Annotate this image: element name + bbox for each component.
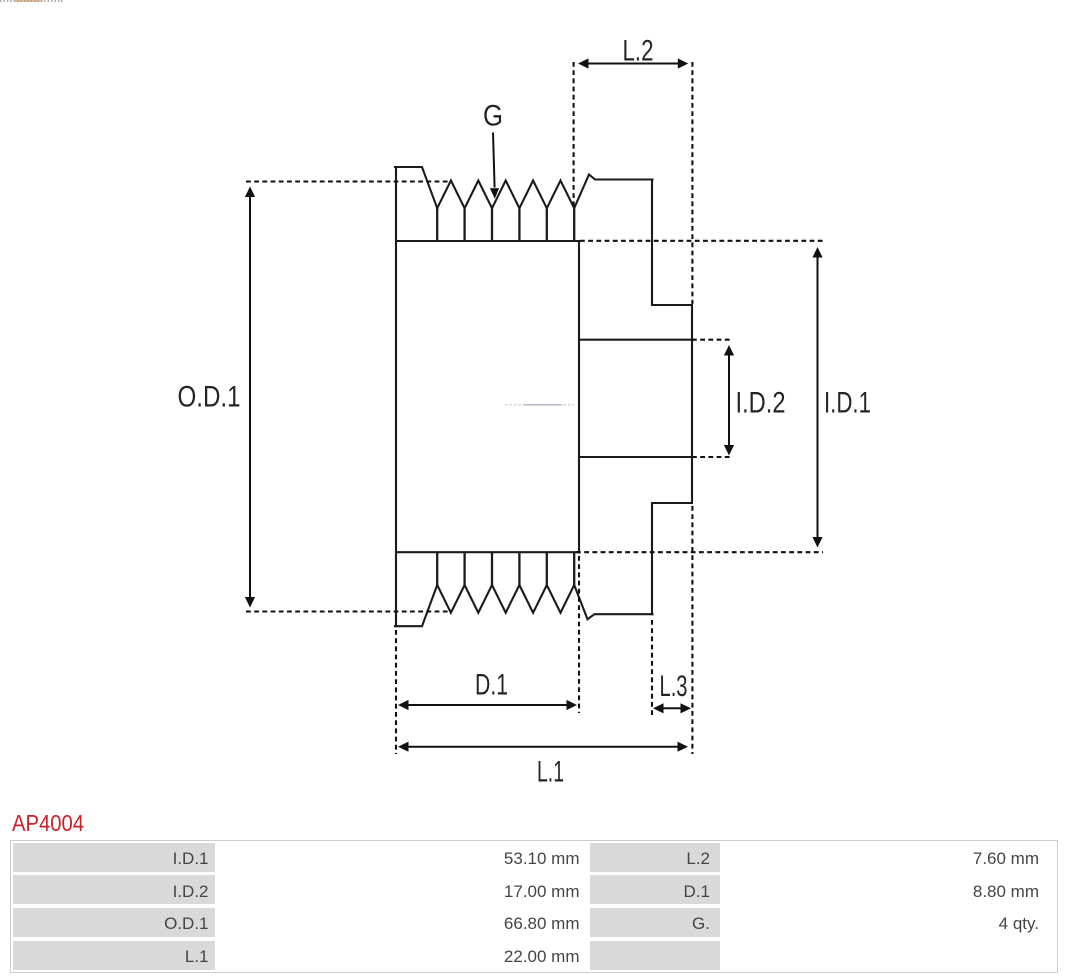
svg-text:L.1: L.1	[537, 756, 564, 789]
svg-text:I.D.1: I.D.1	[824, 387, 871, 420]
svg-text:L.3: L.3	[660, 670, 688, 703]
svg-text:L.2: L.2	[623, 35, 654, 68]
svg-text:G: G	[483, 100, 503, 133]
svg-text:D.1: D.1	[475, 669, 508, 702]
svg-text:I.D.2: I.D.2	[736, 387, 786, 420]
svg-text:O.D.1: O.D.1	[178, 381, 241, 414]
